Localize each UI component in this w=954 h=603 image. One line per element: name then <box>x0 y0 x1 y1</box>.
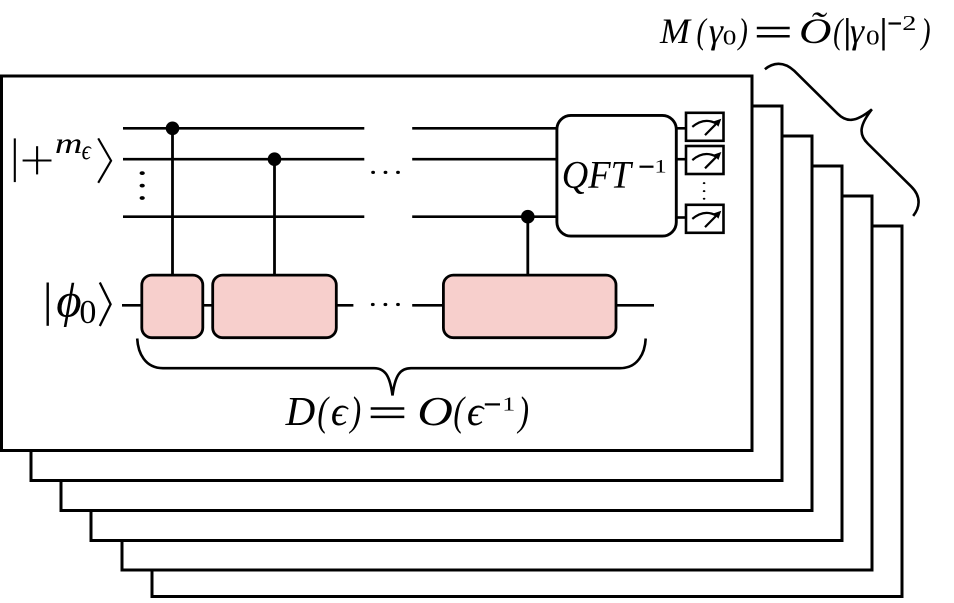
meter 2 arc <box>692 154 717 160</box>
svg-text:O: O <box>417 389 453 434</box>
= sign <box>757 27 790 30</box>
svg-text:ϵ: ϵ <box>331 388 349 434</box>
wire q2 left segment <box>123 158 364 161</box>
svg-text:0: 0 <box>723 26 737 49</box>
O <box>417 389 453 434</box>
ket plus label: bar <box>14 138 16 182</box>
) <box>919 11 930 51</box>
diagonal brace for stack <box>765 36 946 216</box>
sup minus 1 <box>485 403 500 405</box>
ket plus label: superscript subscript epsilon <box>82 136 92 165</box>
) <box>517 388 529 434</box>
svg-text:): ) <box>919 11 930 51</box>
meter 2 needle <box>705 154 719 168</box>
wire q3 left segment <box>123 215 364 218</box>
target wire phi segment 5 <box>614 304 654 307</box>
meter 1 box <box>686 113 724 141</box>
ket plus label: superscript m <box>55 127 83 160</box>
svg-text:1: 1 <box>502 393 515 415</box>
ket phi label: bar <box>47 283 49 326</box>
svg-text:QFT: QFT <box>562 154 634 197</box>
svg-text:): ) <box>517 388 529 434</box>
target wire phi segment 3 <box>334 304 353 307</box>
wire q3 right segment <box>412 215 560 218</box>
ket phi label: right angle bracket <box>100 283 111 327</box>
ellipsis on target wire <box>371 303 375 306</box>
svg-text:D: D <box>285 388 316 434</box>
( <box>833 11 844 51</box>
ket plus label: plus sign <box>23 159 52 161</box>
svg-text:0: 0 <box>866 26 880 49</box>
control dot 3 <box>521 210 535 224</box>
( <box>317 388 330 434</box>
svg-text:ϵ: ϵ <box>82 136 92 165</box>
circuit sheet layer 4 <box>91 166 842 541</box>
meter 3 needle <box>705 213 719 227</box>
control dot 1 <box>166 122 180 136</box>
svg-text:ϵ: ϵ <box>467 388 485 434</box>
circuit sheet layer 5 <box>122 196 872 570</box>
( <box>697 11 708 51</box>
meter 1 needle <box>705 121 719 135</box>
target wire phi segment 2 (between U boxes) <box>200 304 216 307</box>
controlled-U box 1 <box>142 275 203 338</box>
ket plus label: right angle bracket <box>98 138 111 182</box>
wire q1 stub to meter <box>674 127 687 130</box>
svg-text:): ) <box>349 388 361 434</box>
meter 3 arc <box>692 213 717 219</box>
circuit sheet layer 3 <box>61 136 812 511</box>
svg-text:Õ: Õ <box>799 11 831 51</box>
main circuit frame <box>2 76 753 451</box>
circuit sheet layer 2 <box>31 106 782 481</box>
bar <box>846 18 848 51</box>
QFT inverse label <box>562 154 634 197</box>
sub 0 <box>866 26 880 49</box>
svg-text:1: 1 <box>654 155 666 177</box>
vertical dots between meters <box>703 182 706 184</box>
) <box>737 11 748 51</box>
svg-text:m: m <box>55 127 83 160</box>
svg-text:2: 2 <box>902 12 916 35</box>
svg-text:ϕ: ϕ <box>56 272 81 327</box>
circuit sheet layer 6 (backmost) <box>152 226 902 597</box>
controlled-U box 3 <box>443 275 616 338</box>
vertical dots under ket label <box>140 171 145 175</box>
( <box>453 388 466 434</box>
) <box>349 388 361 434</box>
meter 3 box <box>686 205 724 233</box>
wire q2 stub to meter <box>674 158 687 161</box>
underbrace D(eps) <box>137 339 646 396</box>
QFT inverse box <box>557 115 676 236</box>
target wire phi segment 1 <box>122 304 145 307</box>
svg-text:): ) <box>737 11 748 51</box>
bar <box>882 18 884 51</box>
svg-text:M: M <box>659 11 692 51</box>
control dot 2 <box>268 152 282 166</box>
target wire phi segment 4 <box>412 304 446 307</box>
wire q1 left segment <box>123 127 364 130</box>
control line 1 <box>171 128 174 280</box>
ellipsis on wire bundle <box>371 171 375 174</box>
control line 3 <box>526 217 529 280</box>
wire q1 right segment <box>412 127 560 130</box>
svg-text:0: 0 <box>79 294 96 331</box>
sup minus 2 <box>889 22 902 24</box>
meter 1 arc <box>692 121 717 127</box>
sub 0 <box>723 26 737 49</box>
control line 2 <box>273 159 276 280</box>
= sign <box>371 407 405 410</box>
svg-text:γ: γ <box>709 11 724 51</box>
meter 2 box <box>686 146 724 174</box>
O tilde <box>799 11 831 51</box>
wire q2 right segment <box>412 158 560 161</box>
controlled-U box 2 <box>213 275 337 338</box>
svg-text:γ: γ <box>850 11 865 51</box>
wire q3 stub to meter <box>674 216 687 219</box>
